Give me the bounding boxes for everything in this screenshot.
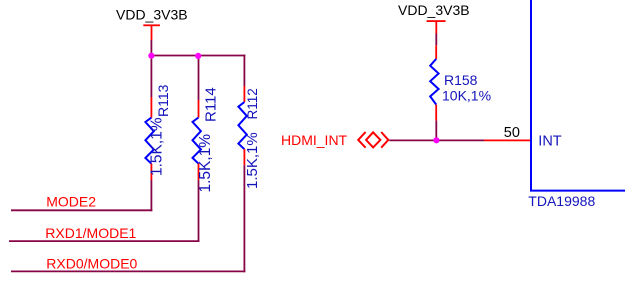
svg-text:VDD_3V3B: VDD_3V3B [116, 7, 188, 23]
node junction at R113 top [148, 53, 154, 59]
wire: top rail [151, 55, 246, 57]
svg-text:50: 50 [504, 125, 520, 141]
wire: R113 to MODE2 [150, 180, 152, 211]
wire: R158 to HDMI_INT net [435, 121, 437, 142]
resistor R112 [238, 86, 261, 189]
wire: rail to R114 [198, 56, 200, 101]
node junction at R114 top [195, 53, 201, 59]
svg-text:RXD0/MODE0: RXD0/MODE0 [46, 256, 137, 272]
svg-text:R113: R113 [155, 84, 171, 117]
power symbol VDD_3V3B (left) [116, 7, 188, 40]
wire: left VDD stem to rail [150, 40, 152, 56]
svg-text:TDA19988: TDA19988 [528, 193, 595, 209]
svg-text:VDD_3V3B: VDD_3V3B [398, 2, 470, 18]
svg-text:HDMI_INT: HDMI_INT [281, 132, 348, 148]
resistor R113 [145, 84, 171, 180]
wire: off-page connector to junction [389, 139, 436, 141]
svg-text:10K,1%: 10K,1% [442, 88, 491, 104]
svg-text:R114: R114 [203, 87, 220, 122]
node junction HDMI_INT [433, 137, 439, 143]
IC TDA19988 outline (partial, pin 50 side) [530, 0, 625, 191]
power symbol VDD_3V3B (right) [398, 2, 470, 33]
wire MODE2 [11, 209, 152, 211]
wire: R114 to RXD1/MODE1 [198, 180, 200, 242]
svg-text:RXD1/MODE1: RXD1/MODE1 [45, 225, 136, 241]
svg-text:MODE2: MODE2 [46, 194, 96, 210]
svg-text:1.5K,1%: 1.5K,1% [149, 117, 166, 176]
wire RXD1/MODE1 [9, 240, 199, 242]
svg-text:R112: R112 [245, 88, 260, 119]
wire: rail corner down to R112 [243, 55, 245, 86]
wire: junction to pin 50 [436, 139, 484, 141]
svg-text:R158: R158 [444, 72, 478, 88]
off-page connector HDMI_INT [358, 132, 388, 148]
pin 50 lead [484, 139, 531, 141]
svg-text:1.5K,1%: 1.5K,1% [244, 132, 261, 189]
wire: R112 to RXD0/MODE0 [243, 165, 245, 272]
resistor R114 [193, 87, 220, 192]
resistor R158 [430, 45, 491, 120]
svg-text:1.5K,1%: 1.5K,1% [197, 134, 214, 193]
wire: rail to R113 [150, 56, 152, 98]
svg-text:INT: INT [538, 134, 562, 150]
wire RXD0/MODE0 [11, 270, 245, 272]
wire: right VDD stem to R158 [435, 34, 437, 46]
